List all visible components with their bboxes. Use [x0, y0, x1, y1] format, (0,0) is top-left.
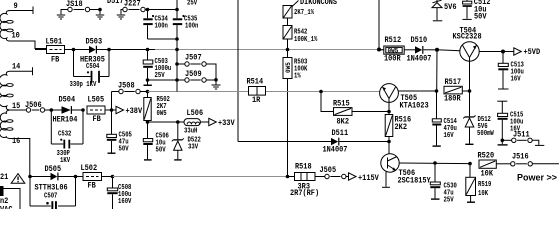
svg-text:100n: 100n	[155, 23, 168, 31]
svg-text:D505: D505	[45, 165, 62, 174]
svg-text:8K2: 8K2	[337, 118, 350, 127]
wire mid rail (gray)	[148, 91, 380, 93]
node C534 top	[146, 8, 150, 12]
svg-text:J516: J516	[512, 153, 529, 162]
wire top rail left (black)	[35, 49, 47, 51]
node C535 column crossing top rail	[175, 48, 179, 52]
wire D510 node down to R517	[436, 50, 438, 91]
svg-text:0W5: 0W5	[285, 62, 292, 73]
svg-text:14: 14	[12, 63, 20, 72]
resistor R518	[288, 163, 325, 199]
wire pin16 elbow	[10, 139, 30, 177]
node D503 anode	[72, 48, 76, 52]
capacitor C512	[462, 0, 490, 22]
svg-text:R520: R520	[478, 152, 495, 161]
svg-text:C507: C507	[44, 193, 57, 201]
wire D503 to C503 node	[109, 49, 155, 51]
node D505 cathode	[74, 175, 78, 179]
svg-text:33V: 33V	[188, 144, 199, 152]
svg-text:D504: D504	[59, 96, 76, 105]
node +38V	[110, 108, 114, 112]
node D504 cathode	[81, 108, 85, 112]
node J509 left	[175, 78, 179, 82]
svg-text:R517: R517	[445, 78, 462, 87]
inductor L506 33uH	[184, 109, 209, 136]
svg-text:25V: 25V	[155, 72, 166, 80]
output arrow +115V	[349, 173, 357, 180]
jumper J516	[511, 153, 559, 167]
capacitor C515	[497, 101, 523, 145]
capacitor C508	[107, 177, 132, 210]
node R515 tap on mid rail	[319, 90, 323, 94]
output arrow +33V	[209, 118, 217, 125]
wire T504 emitter to +5VD	[479, 51, 514, 53]
jumper J506	[25, 101, 51, 112]
warning triangle	[11, 174, 25, 184]
node R503 bottom on +115V rail	[286, 175, 290, 179]
svg-text:160V: 160V	[118, 198, 132, 206]
node C515 / J511	[501, 139, 505, 143]
output arrow +38V	[112, 106, 143, 116]
node R517 right / T504 base	[468, 89, 472, 93]
node D504 anode	[50, 108, 54, 112]
svg-text:25V: 25V	[187, 0, 198, 8]
resistor R542	[283, 26, 318, 50]
node x379 on rail	[377, 48, 381, 52]
jumper J507	[177, 54, 216, 80]
wire D511 feed line	[238, 141, 331, 143]
svg-text:FB: FB	[51, 56, 59, 65]
svg-text:1R: 1R	[252, 96, 260, 105]
svg-text:D517: D517	[107, 0, 124, 6]
svg-text:D511: D511	[332, 129, 349, 138]
zener lead clipped above 2K7	[292, 1, 299, 8]
diode D510	[407, 36, 438, 64]
wire L506 line	[148, 121, 185, 123]
connector body (left edge)	[0, 186, 4, 196]
svg-text:100K_1%: 100K_1%	[294, 36, 318, 44]
node L502 out / C508	[111, 175, 115, 179]
svg-text:2K7_1%: 2K7_1%	[294, 9, 315, 17]
svg-text:50V: 50V	[156, 147, 167, 155]
node T505 bottom / R515 / R516	[387, 110, 391, 114]
svg-text:VAC: VAC	[0, 206, 13, 210]
svg-text:100n: 100n	[185, 23, 198, 31]
resistor R514	[247, 78, 266, 106]
svg-text:50V: 50V	[474, 13, 487, 22]
capacitor C504 snubber box	[70, 50, 110, 90]
tick below C503 node	[147, 80, 149, 85]
svg-text:50V: 50V	[119, 146, 130, 154]
svg-text:KSC2328: KSC2328	[453, 33, 482, 42]
resistor R520	[478, 152, 511, 179]
svg-text:10K: 10K	[481, 170, 494, 179]
svg-text:J505: J505	[320, 166, 337, 175]
wire x177 column	[176, 50, 178, 92]
svg-text:C532: C532	[58, 131, 71, 139]
node C534/C535 join	[175, 37, 179, 41]
jumper J509	[177, 70, 216, 82]
resistor R517	[444, 78, 470, 104]
resistor R503 (bleeder)	[283, 50, 308, 177]
wire C534 bottom to C535 line	[148, 38, 178, 40]
wire L501 to D503	[65, 49, 90, 51]
svg-text:10: 10	[12, 32, 20, 41]
resistor R516	[385, 112, 411, 142]
capacitor C535	[173, 0, 199, 50]
jumper JS18	[57, 0, 100, 19]
svg-text:L506: L506	[187, 109, 204, 118]
node C530 top	[433, 161, 437, 165]
jumper J227	[117, 0, 177, 19]
capacitor C505	[107, 110, 132, 154]
svg-text:DIKONCONS: DIKONCONS	[300, 0, 337, 7]
svg-text:R519: R519	[478, 181, 491, 189]
output arrow +5VD	[514, 48, 522, 55]
node C503 top	[146, 48, 150, 52]
wire pin15 to J506	[10, 109, 27, 111]
svg-text:21: 21	[0, 173, 8, 182]
svg-text:16V: 16V	[511, 76, 522, 84]
svg-text:1KV: 1KV	[60, 157, 71, 165]
capacitor C530	[430, 163, 457, 205]
zener D512	[463, 91, 494, 145]
ground at J507/J509	[212, 80, 221, 89]
ferrite bead L505	[87, 96, 112, 125]
node R502 bottom / L506 line	[146, 120, 150, 124]
wire T506 collector to R520 line	[399, 162, 470, 165]
svg-text:500mW: 500mW	[477, 130, 494, 138]
jumper J508	[112, 82, 148, 94]
diode D504	[51, 96, 83, 125]
svg-text:16V: 16V	[444, 132, 455, 140]
svg-text:+33V: +33V	[218, 119, 235, 128]
wire top rail (gray)	[155, 49, 384, 51]
node D511/R516/T506	[387, 140, 391, 144]
svg-text:D503: D503	[86, 38, 103, 47]
ground at JS18 right	[96, 8, 104, 19]
svg-text:1N4007: 1N4007	[407, 55, 432, 64]
diode D511	[323, 129, 390, 155]
wire vertical line x238	[237, 0, 239, 142]
svg-text:9: 9	[14, 2, 18, 11]
wire +38V node up to J508	[111, 92, 113, 111]
svg-text:10K: 10K	[478, 190, 489, 198]
resistor R515	[321, 92, 389, 127]
svg-text:100R: 100R	[384, 55, 401, 64]
svg-text:0W5: 0W5	[157, 110, 167, 118]
capacitor C534	[143, 10, 168, 40]
node D503 cathode	[107, 48, 111, 52]
diode D503	[80, 38, 109, 65]
node D522 top	[176, 120, 180, 124]
ferrite bead L501	[46, 38, 65, 65]
svg-text:180R: 180R	[444, 95, 461, 104]
jumper J511	[502, 131, 544, 146]
node D505 anode	[28, 175, 32, 179]
svg-text:2K2: 2K2	[395, 123, 408, 132]
node J507 left	[175, 62, 179, 66]
node C535 top	[175, 8, 179, 12]
resistor R519	[466, 164, 492, 203]
node C503 bottom	[146, 78, 150, 82]
node D510 cathode	[435, 48, 439, 52]
transistor T505 KTA1023	[380, 84, 429, 112]
node R519 top	[468, 162, 472, 166]
svg-text:D510: D510	[411, 36, 428, 45]
svg-text:L502: L502	[81, 164, 98, 173]
wire T505 to R517	[398, 90, 436, 92]
resistor R512	[379, 36, 415, 64]
svg-text:2R7(RF): 2R7(RF)	[290, 189, 319, 198]
svg-text:+5VD: +5VD	[524, 48, 541, 57]
capacitor C514	[432, 91, 457, 147]
capacitor C503	[143, 50, 171, 81]
svg-text:C504: C504	[86, 63, 100, 71]
svg-text:L505: L505	[88, 96, 105, 105]
svg-text:R512: R512	[385, 36, 402, 45]
ferrite bead L502	[76, 164, 114, 191]
svg-text:J507: J507	[185, 54, 202, 63]
winding T pins 14-15	[0, 67, 33, 110]
svg-text:5V6: 5V6	[444, 3, 457, 12]
winding T pins 15-16	[0, 110, 13, 139]
svg-text:+38V: +38V	[126, 107, 143, 116]
capacitor C532 snubber box	[51, 110, 83, 165]
svg-text:1%: 1%	[294, 73, 301, 81]
wire C503 node to J507/J509 column	[148, 79, 178, 81]
diode D505	[30, 165, 76, 193]
node J507/J509 join	[214, 78, 218, 82]
svg-text:33uH: 33uH	[184, 128, 197, 136]
node J508 right on mid rail	[146, 90, 150, 94]
zener 5V6 (top, clipped)	[432, 0, 457, 21]
winding T pins 9-10	[0, 7, 47, 49]
svg-text:1N4007: 1N4007	[323, 146, 348, 155]
svg-text:330p 1KV: 330p 1KV	[70, 81, 97, 89]
node C513 top	[501, 50, 505, 54]
resistor R502	[144, 92, 170, 123]
svg-text:FB: FB	[93, 115, 101, 124]
wire to T504	[437, 50, 460, 51]
svg-text:2SC1815Y: 2SC1815Y	[398, 177, 431, 186]
wire +115V rail (gray)	[113, 176, 288, 178]
svg-text:KTA1023: KTA1023	[400, 102, 429, 111]
transistor T504 KSC2328	[453, 27, 482, 92]
wire from connector	[4, 189, 21, 210]
wire vertical x379 from top	[378, 0, 380, 50]
transistor T506 2SC1815Y	[381, 142, 431, 188]
svg-text:25V: 25V	[444, 197, 455, 205]
node R542 bottom on rail	[286, 48, 290, 52]
svg-text:STTH3L06: STTH3L06	[35, 184, 68, 193]
resistor 2K7_1%	[283, 6, 315, 26]
svg-text:Power >>: Power >>	[517, 173, 557, 183]
capacitor C506	[143, 122, 169, 161]
svg-text:R514: R514	[247, 78, 264, 87]
zener D522	[172, 122, 201, 161]
node R517 left	[435, 89, 439, 93]
jumper J505	[320, 166, 349, 179]
svg-text:FB: FB	[88, 182, 96, 191]
svg-text:HER104: HER104	[53, 116, 78, 125]
capacitor C507 snubber box	[30, 177, 76, 210]
svg-text:+115V: +115V	[358, 174, 379, 183]
svg-text:R518: R518	[295, 163, 312, 172]
capacitor C513	[498, 52, 524, 90]
